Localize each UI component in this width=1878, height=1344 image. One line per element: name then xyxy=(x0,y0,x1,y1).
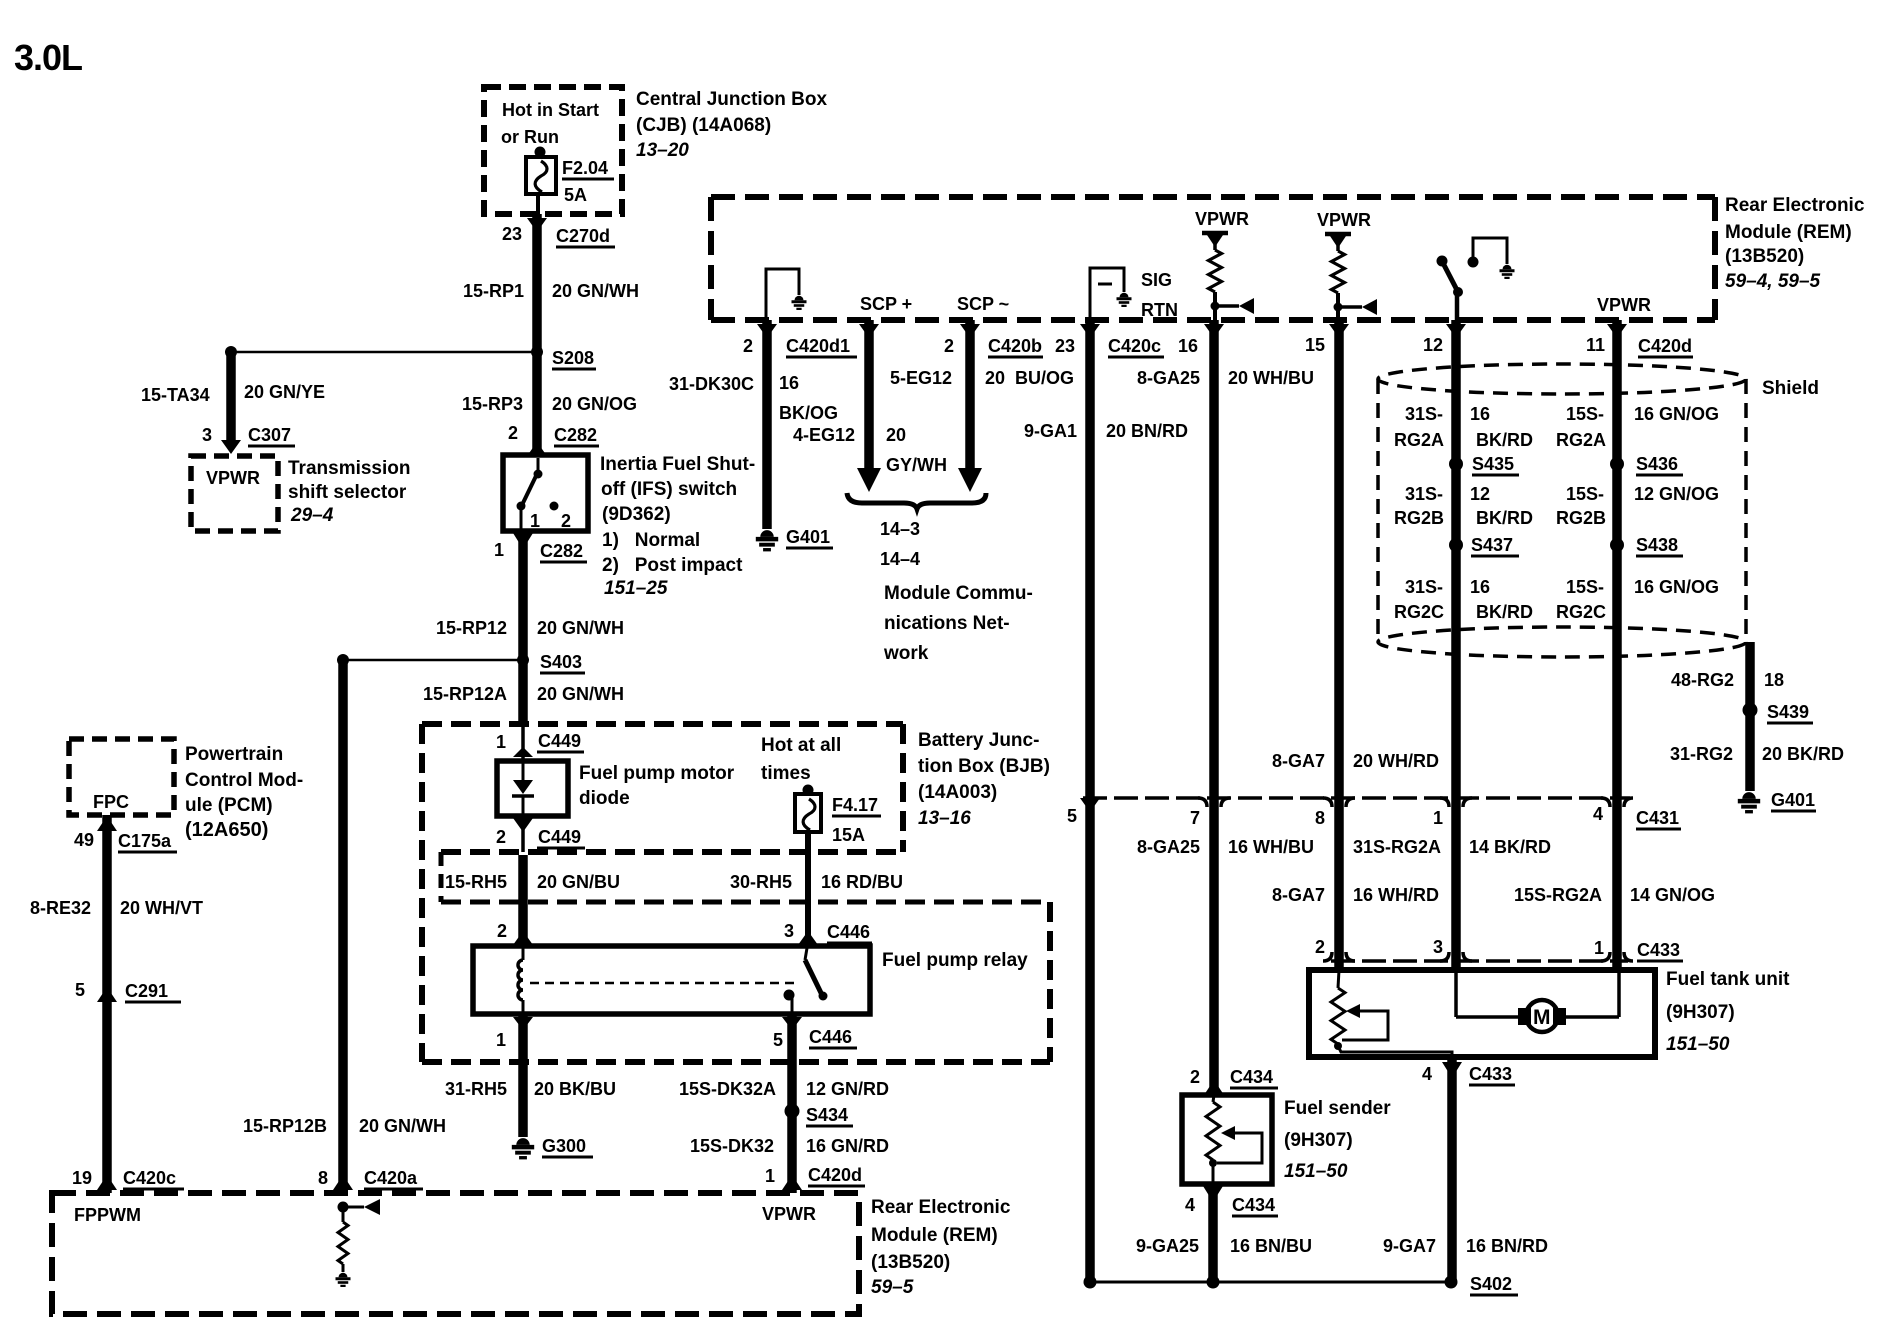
svg-text:C282: C282 xyxy=(540,541,583,561)
label SCP ~ xyxy=(957,294,1009,314)
svg-text:8: 8 xyxy=(1315,808,1325,828)
connector C433 arrow (pin4) xyxy=(1442,1062,1462,1078)
svg-text:29–4: 29–4 xyxy=(290,505,334,526)
svg-text:14 GN/OG: 14 GN/OG xyxy=(1630,885,1715,905)
label 1 / C282 (lower) xyxy=(494,540,587,562)
label 15 (REM pin) xyxy=(1305,335,1325,355)
svg-text:1) Normal: 1) Normal xyxy=(602,530,700,551)
wire 15-RP12 (IFS to S403) xyxy=(518,531,528,724)
connector C307 arrow xyxy=(221,440,241,454)
label 8-GA7 / 20 WH/RD (above BJB) xyxy=(1272,751,1439,771)
connector C434 arrow (lower) xyxy=(1203,1186,1223,1202)
node S436 xyxy=(1610,454,1683,475)
svg-text:15S-RG2A: 15S-RG2A xyxy=(1514,885,1602,905)
REM internal resistor (pin15) xyxy=(1325,234,1351,320)
connector C433 dashed line xyxy=(1331,959,1628,963)
svg-text:15A: 15A xyxy=(832,825,865,845)
svg-text:C433: C433 xyxy=(1469,1064,1512,1084)
label 30-RH5 / 16 RD/BU xyxy=(730,872,903,892)
svg-text:Hot in Start: Hot in Start xyxy=(502,100,599,120)
label 31S-RG2B (shield row2) xyxy=(1394,484,1444,528)
svg-text:15-RP12A: 15-RP12A xyxy=(423,684,507,704)
wire 9-GA1 20 BN/RD (SIG RTN to S402) xyxy=(1080,320,1100,1282)
label Inertia Fuel Shut-off (IFS) switch (9D362) notes xyxy=(600,454,755,599)
label Fuel pump motor diode xyxy=(579,763,735,809)
connector C434 arrow (upper) xyxy=(1204,1080,1224,1095)
label 15-TA34 / 20 GN/YE xyxy=(141,382,325,405)
svg-text:16: 16 xyxy=(779,373,799,393)
svg-text:(9D362): (9D362) xyxy=(602,504,671,525)
svg-text:C420d1: C420d1 xyxy=(786,336,850,356)
wire S403 branch (horizontal) xyxy=(343,659,523,662)
svg-text:(13B520): (13B520) xyxy=(1725,246,1804,267)
wire 4-EG12 SCP+ xyxy=(857,320,881,492)
svg-text:F4.17: F4.17 xyxy=(832,795,878,815)
relay linkage (dashed) xyxy=(530,982,795,985)
svg-text:16 RD/BU: 16 RD/BU xyxy=(821,872,903,892)
label 2 / C282 (upper) xyxy=(508,423,599,446)
wire 8-RE32 20 WH/VT (FPC to REM) xyxy=(102,815,112,1193)
svg-text:2: 2 xyxy=(561,511,571,531)
svg-text:23: 23 xyxy=(502,224,522,244)
svg-text:15-TA34: 15-TA34 xyxy=(141,385,210,405)
svg-text:31-RG2: 31-RG2 xyxy=(1670,744,1733,764)
svg-text:BK/RD: BK/RD xyxy=(1476,430,1533,450)
svg-text:20 WH/BU: 20 WH/BU xyxy=(1228,368,1314,388)
svg-text:Rear Electronic: Rear Electronic xyxy=(871,1197,1011,1218)
svg-text:BK/RD: BK/RD xyxy=(1476,602,1533,622)
Rear Electronic Module bottom enclosure xyxy=(52,1193,859,1314)
svg-text:1: 1 xyxy=(765,1166,775,1186)
label 9-GA1 / 20 BN/RD xyxy=(1024,421,1188,441)
ground G401 (shield drain) xyxy=(1738,790,1816,812)
fuel sender box xyxy=(1182,1095,1272,1184)
fuse F4.17 15A xyxy=(795,785,821,833)
svg-text:tion Box (BJB): tion Box (BJB) xyxy=(918,756,1050,777)
svg-text:C175a: C175a xyxy=(118,831,172,851)
connector C282 arrow (below IFS) xyxy=(513,533,533,549)
label 2 / C449 (lower) xyxy=(496,827,585,848)
wire 15-RP12A into diode (thin) xyxy=(521,724,525,761)
label 1 / C420d (REM) xyxy=(765,1165,865,1186)
svg-text:C420c: C420c xyxy=(1108,336,1161,356)
label 4 / C433 (pin4) xyxy=(1422,1064,1515,1085)
svg-text:Module (REM): Module (REM) xyxy=(1725,222,1852,243)
svg-text:off (IFS) switch: off (IFS) switch xyxy=(601,479,737,500)
svg-text:1: 1 xyxy=(496,1030,506,1050)
Transmission shift selector box (VPWR) xyxy=(191,456,278,531)
wire 15-RP1 (CJB to IFS) xyxy=(532,214,542,456)
label 15S-DK32A / 12 GN/RD xyxy=(679,1079,889,1099)
svg-text:16 WH/RD: 16 WH/RD xyxy=(1353,885,1439,905)
svg-text:151–50: 151–50 xyxy=(1666,1034,1730,1055)
label 8-GA25 / 16 WH/BU (below BJB) xyxy=(1137,837,1314,857)
label Module Communications Network xyxy=(883,583,1033,664)
svg-text:3: 3 xyxy=(784,921,794,941)
svg-text:3: 3 xyxy=(1433,937,1443,957)
svg-text:2: 2 xyxy=(508,423,518,443)
label Transmission shift selector 29-4 xyxy=(288,458,411,526)
svg-text:2: 2 xyxy=(743,336,753,356)
svg-text:S439: S439 xyxy=(1767,702,1809,722)
svg-text:RG2B: RG2B xyxy=(1556,508,1606,528)
svg-text:14–4: 14–4 xyxy=(880,549,920,569)
svg-text:20 BK/RD: 20 BK/RD xyxy=(1762,744,1844,764)
svg-text:151–25: 151–25 xyxy=(604,578,668,599)
svg-text:G401: G401 xyxy=(1771,790,1815,810)
connector C446 arrow relay pin5 xyxy=(782,1017,802,1030)
label VPWR (REM pin11) xyxy=(1597,295,1651,315)
connector C446 arrow relay pin3 xyxy=(798,931,818,945)
svg-text:Powertrain: Powertrain xyxy=(185,744,283,765)
connector C270d arrow xyxy=(527,218,547,232)
svg-text:31-DK30C: 31-DK30C xyxy=(669,374,754,394)
inertia fuel shutoff switch box xyxy=(503,455,588,531)
svg-text:20: 20 xyxy=(886,425,906,445)
svg-text:Fuel sender: Fuel sender xyxy=(1284,1098,1391,1119)
svg-text:C270d: C270d xyxy=(556,226,610,246)
label 31S-RG2A / 14 BK/RD xyxy=(1353,837,1551,857)
svg-text:30-RH5: 30-RH5 xyxy=(730,872,792,892)
svg-text:Fuel tank unit: Fuel tank unit xyxy=(1666,969,1790,990)
node S402 junctions xyxy=(1084,1276,1458,1289)
svg-text:1: 1 xyxy=(494,540,504,560)
svg-text:C307: C307 xyxy=(248,425,291,445)
svg-text:RG2C: RG2C xyxy=(1394,602,1444,622)
label 2 / C420d1 xyxy=(743,336,857,357)
wire 15-RH5 (diode to relay) xyxy=(518,855,528,946)
svg-text:C291: C291 xyxy=(125,981,168,1001)
label Rear Electronic Module (REM) (13B520) 59-4 59-5 xyxy=(1725,195,1865,292)
fuel pump motor diode box xyxy=(497,761,568,816)
node S435 xyxy=(1449,454,1519,475)
svg-text:15-RP12B: 15-RP12B xyxy=(243,1116,327,1136)
svg-text:14 BK/RD: 14 BK/RD xyxy=(1469,837,1551,857)
svg-text:151–50: 151–50 xyxy=(1284,1161,1348,1182)
svg-text:12: 12 xyxy=(1470,484,1490,504)
svg-text:13–20: 13–20 xyxy=(636,140,689,161)
fuel level sender wiper (tank) xyxy=(1342,1004,1388,1040)
fuel sender resistor xyxy=(1206,1095,1220,1184)
label 15-RH5 / 20 GN/BU xyxy=(445,872,620,892)
svg-text:FPPWM: FPPWM xyxy=(74,1205,141,1225)
label 16 BK/RD (shield row3) xyxy=(1470,577,1533,622)
svg-text:SCP ~: SCP ~ xyxy=(957,294,1009,314)
svg-text:18: 18 xyxy=(1764,670,1784,690)
svg-text:nications Net-: nications Net- xyxy=(884,613,1010,634)
svg-text:diode: diode xyxy=(579,788,630,809)
fuel sender wiper xyxy=(1217,1126,1262,1163)
label Fuel sender (9H307) 151-50 xyxy=(1284,1098,1391,1182)
fuel pump relay box xyxy=(473,946,870,1014)
svg-text:G300: G300 xyxy=(542,1136,586,1156)
relay switch blade xyxy=(784,948,828,1001)
connector C291 arrow xyxy=(97,987,117,1002)
svg-text:C282: C282 xyxy=(554,425,597,445)
label 15-RP12A / 20 GN/WH xyxy=(423,684,624,704)
label S402 xyxy=(1470,1274,1518,1295)
label 2 / C420b 23 xyxy=(944,336,1075,357)
label Hot at all times xyxy=(761,735,841,784)
svg-text:RG2C: RG2C xyxy=(1556,602,1606,622)
svg-text:C420d: C420d xyxy=(1638,336,1692,356)
svg-text:31S-: 31S- xyxy=(1405,404,1443,424)
REM internal switch ground loop xyxy=(1473,238,1515,278)
label 15-RP12B / 20 GN/WH xyxy=(243,1116,446,1136)
svg-text:20 GN/WH: 20 GN/WH xyxy=(537,618,624,638)
svg-text:20 GN/BU: 20 GN/BU xyxy=(537,872,620,892)
svg-text:20 BK/BU: 20 BK/BU xyxy=(534,1079,616,1099)
svg-text:Shield: Shield xyxy=(1762,378,1819,399)
label VPWR (shift selector) xyxy=(206,468,260,488)
label 12 (REM pin) xyxy=(1423,335,1443,355)
svg-text:16 GN/OG: 16 GN/OG xyxy=(1634,404,1719,424)
label 4-EG12 / 20 GY/WH xyxy=(793,425,947,475)
svg-text:5: 5 xyxy=(773,1030,783,1050)
svg-text:16 BN/BU: 16 BN/BU xyxy=(1230,1236,1312,1256)
label 15S-RG2A / 14 GN/OG xyxy=(1514,885,1715,905)
label 15-RP3 / 20 GN/OG xyxy=(462,394,637,414)
svg-text:4-EG12: 4-EG12 xyxy=(793,425,855,445)
wire 5-EG12 SCP~ xyxy=(958,320,982,492)
svg-text:16: 16 xyxy=(1470,577,1490,597)
node S437 xyxy=(1449,535,1519,556)
REM internal resistor (pin16) xyxy=(1202,233,1228,320)
fuel tank unit box xyxy=(1309,970,1655,1057)
svg-text:S434: S434 xyxy=(806,1105,848,1125)
svg-text:15: 15 xyxy=(1305,335,1325,355)
svg-text:16: 16 xyxy=(1470,404,1490,424)
label 2 (C433 pin) xyxy=(1315,937,1325,957)
IFS switch internals xyxy=(517,458,559,533)
svg-text:S402: S402 xyxy=(1470,1274,1512,1294)
svg-text:20 GN/WH: 20 GN/WH xyxy=(359,1116,446,1136)
C433 connector hooks xyxy=(1323,952,1633,961)
svg-text:(13B520): (13B520) xyxy=(871,1252,950,1273)
node S208 xyxy=(531,346,596,369)
label C420d xyxy=(1638,336,1693,357)
svg-text:59–5: 59–5 xyxy=(871,1277,914,1298)
svg-text:14–3: 14–3 xyxy=(880,519,920,539)
REM bottom internal resistor to ground xyxy=(336,1202,351,1286)
REM internal switch (pin12) xyxy=(1437,256,1479,321)
relay coil xyxy=(518,946,523,1014)
svg-text:S435: S435 xyxy=(1472,454,1514,474)
svg-text:8-GA7: 8-GA7 xyxy=(1272,885,1325,905)
svg-text:Fuel pump motor: Fuel pump motor xyxy=(579,763,735,784)
node S434 xyxy=(785,1104,854,1127)
svg-text:20 GN/OG: 20 GN/OG xyxy=(552,394,637,414)
svg-text:FPC: FPC xyxy=(93,792,129,812)
svg-text:15S-: 15S- xyxy=(1566,577,1604,597)
label 16 BK/RD (shield row1) xyxy=(1470,404,1533,450)
wire 8-GA7 20 WH/RD (REM15 to tank) xyxy=(1329,320,1349,970)
label FPPWM xyxy=(74,1205,141,1225)
svg-text:5A: 5A xyxy=(564,185,587,205)
label 12 GN/OG (shield row2) xyxy=(1634,484,1719,504)
wire below diode (thin) xyxy=(521,816,525,852)
label 5 / C446 (pin5) xyxy=(773,1027,857,1050)
label 3 / C446 (relay) xyxy=(784,921,872,943)
svg-text:16 BN/RD: 16 BN/RD xyxy=(1466,1236,1548,1256)
label 3 (C433 pin) xyxy=(1433,937,1443,957)
wire 30-RH5 (fuse to relay) xyxy=(805,832,811,946)
label FPC xyxy=(93,792,129,812)
svg-text:3: 3 xyxy=(202,425,212,445)
svg-text:23: 23 xyxy=(1055,336,1075,356)
svg-text:BK/RD: BK/RD xyxy=(1476,508,1533,528)
svg-text:Transmission: Transmission xyxy=(288,458,411,479)
svg-text:RG2A: RG2A xyxy=(1394,430,1444,450)
label VPWR (REM pin16) xyxy=(1195,209,1249,229)
svg-text:15S-DK32: 15S-DK32 xyxy=(690,1136,774,1156)
svg-text:20 GN/YE: 20 GN/YE xyxy=(244,382,325,402)
node S438 xyxy=(1610,535,1683,556)
label 48-RG2 / 18 xyxy=(1671,670,1784,690)
label 8-GA7 / 16 WH/RD (below BJB) xyxy=(1272,885,1439,905)
svg-text:Fuel pump relay: Fuel pump relay xyxy=(882,950,1028,971)
svg-text:G401: G401 xyxy=(786,527,830,547)
fuse F2.04 5A xyxy=(526,147,556,215)
label 9-GA7 / 16 BN/RD xyxy=(1383,1236,1548,1256)
label 16 GN/OG (shield row3) xyxy=(1634,577,1719,597)
svg-text:ule (PCM): ule (PCM) xyxy=(185,795,273,816)
label 4 / C434 (lower) xyxy=(1185,1195,1278,1216)
svg-text:Rear Electronic: Rear Electronic xyxy=(1725,195,1865,216)
svg-text:Battery Junc-: Battery Junc- xyxy=(918,730,1039,751)
svg-text:S208: S208 xyxy=(552,348,594,368)
Rear Electronic Module (REM) top enclosure xyxy=(711,197,1715,320)
svg-text:9-GA1: 9-GA1 xyxy=(1024,421,1077,441)
svg-text:RG2B: RG2B xyxy=(1394,508,1444,528)
wire 9-GA7 16 BN/RD (tank pin4 to S402) xyxy=(1447,1057,1457,1282)
label Shield xyxy=(1762,378,1819,399)
svg-text:S403: S403 xyxy=(540,652,582,672)
svg-text:(CJB) (14A068): (CJB) (14A068) xyxy=(636,115,771,136)
label 15-RP12 / 20 GN/WH xyxy=(436,618,624,638)
label SCP + xyxy=(860,294,912,314)
wire 15-RP12B (S403 to REM) xyxy=(338,660,348,1193)
svg-text:1: 1 xyxy=(1433,808,1443,828)
REM internal ground loop (pin2 wire) xyxy=(766,269,807,320)
svg-text:C449: C449 xyxy=(538,731,581,751)
svg-text:Inertia Fuel Shut-: Inertia Fuel Shut- xyxy=(600,454,755,475)
REM pin15 driver triangle xyxy=(1334,299,1378,315)
svg-text:15S-: 15S- xyxy=(1566,404,1604,424)
svg-text:RTN: RTN xyxy=(1141,300,1178,320)
svg-text:C420b: C420b xyxy=(988,336,1042,356)
label 9-GA25 / 16 BN/BU xyxy=(1136,1236,1312,1256)
svg-text:19: 19 xyxy=(72,1168,92,1188)
label 8 (BJB pin) xyxy=(1315,808,1325,828)
svg-text:BK/OG: BK/OG xyxy=(779,403,838,423)
label Rear Electronic Module (REM) (13B520) 59-5 xyxy=(871,1197,1011,1298)
title 3.0L xyxy=(14,37,82,78)
svg-text:9-GA7: 9-GA7 xyxy=(1383,1236,1436,1256)
svg-text:12: 12 xyxy=(1423,335,1443,355)
svg-text:C420c: C420c xyxy=(123,1168,176,1188)
svg-text:2) Post impact: 2) Post impact xyxy=(602,555,743,576)
svg-text:Control Mod-: Control Mod- xyxy=(185,770,303,791)
svg-text:5: 5 xyxy=(75,980,85,1000)
wire 31S-RG2A (REM12 to tank motor) xyxy=(1446,320,1466,970)
label 2 (relay pin) xyxy=(497,921,507,941)
svg-text:VPWR: VPWR xyxy=(1317,210,1371,230)
connector C420d arrow (REM VPWR) xyxy=(782,1175,802,1190)
svg-text:SCP +: SCP + xyxy=(860,294,912,314)
svg-text:2: 2 xyxy=(496,827,506,847)
label Fuel tank unit (9H307) 151-50 xyxy=(1666,969,1790,1055)
svg-text:15-RP1: 15-RP1 xyxy=(463,281,524,301)
ground G401 (REM pin2 wire) xyxy=(756,527,833,550)
REM bottom driver triangle xyxy=(343,1199,380,1215)
svg-text:2: 2 xyxy=(1190,1067,1200,1087)
svg-text:16: 16 xyxy=(1178,336,1198,356)
wire 9-GA25 16 BN/BU (sender to S402) xyxy=(1208,1184,1218,1282)
label F2.04 / 5A xyxy=(562,158,614,205)
svg-text:4: 4 xyxy=(1593,804,1603,824)
label 2 / C434 (upper) xyxy=(1190,1067,1278,1088)
label 14-3 / 14-4 xyxy=(880,519,920,569)
label 20 BU/OG xyxy=(985,368,1074,388)
svg-text:Hot at all: Hot at all xyxy=(761,735,841,756)
wire S208 branch (horizontal) xyxy=(231,351,537,354)
svg-text:C431: C431 xyxy=(1636,808,1679,828)
Battery Junction Box enclosure xyxy=(422,724,903,1062)
label Powertrain Control Module (PCM) (12A650) xyxy=(185,744,303,841)
wire S402 (horizontal) xyxy=(1090,1281,1451,1284)
label 15S-RG2C (shield row3) xyxy=(1556,577,1606,622)
svg-text:2: 2 xyxy=(944,336,954,356)
label 5-EG12 (SCP~ circuit) xyxy=(890,368,952,388)
fuel level sender resistor (tank) xyxy=(1331,970,1452,1057)
svg-text:16 GN/RD: 16 GN/RD xyxy=(806,1136,889,1156)
svg-text:F2.04: F2.04 xyxy=(562,158,608,178)
svg-text:S438: S438 xyxy=(1636,535,1678,555)
svg-text:7: 7 xyxy=(1190,808,1200,828)
svg-text:VPWR: VPWR xyxy=(206,468,260,488)
label 7 (BJB pin) xyxy=(1190,808,1200,828)
svg-text:1: 1 xyxy=(1594,938,1604,958)
svg-text:15-RH5: 15-RH5 xyxy=(445,872,507,892)
wire 15S-RG2A (REM11 to tank motor) xyxy=(1607,320,1627,970)
svg-text:59–4, 59–5: 59–4, 59–5 xyxy=(1725,271,1821,292)
label 1 / C449 (upper) xyxy=(496,731,584,752)
brace module communications network xyxy=(847,493,986,509)
BJB pin arrows and connector hooks xyxy=(1080,798,1633,812)
svg-text:VPWR: VPWR xyxy=(1195,209,1249,229)
svg-text:31S-RG2A: 31S-RG2A xyxy=(1353,837,1441,857)
svg-text:3.0L: 3.0L xyxy=(14,37,82,78)
label 31S-RG2A (shield row1) xyxy=(1394,404,1444,450)
wire 31-DK30C (to G401) xyxy=(757,320,777,529)
svg-text:20 GN/WH: 20 GN/WH xyxy=(552,281,639,301)
svg-text:5-EG12: 5-EG12 xyxy=(890,368,952,388)
svg-text:16 GN/OG: 16 GN/OG xyxy=(1634,577,1719,597)
svg-text:2: 2 xyxy=(497,921,507,941)
label 15S-RG2A (shield row1) xyxy=(1556,404,1606,450)
wire relay pin1 to G300 xyxy=(518,1014,528,1137)
label 8-GA25 / 20 WH/BU xyxy=(1137,368,1314,388)
label 12 BK/RD (shield row2) xyxy=(1470,484,1533,528)
connector C449 arrow (upper) xyxy=(513,747,533,757)
label Fuel pump relay xyxy=(882,950,1028,971)
label C420c 16 xyxy=(1108,336,1198,357)
svg-text:(9H307): (9H307) xyxy=(1284,1130,1353,1151)
label 5 / C291 xyxy=(75,980,181,1002)
svg-text:20 WH/VT: 20 WH/VT xyxy=(120,898,203,918)
svg-text:C449: C449 xyxy=(538,827,581,847)
